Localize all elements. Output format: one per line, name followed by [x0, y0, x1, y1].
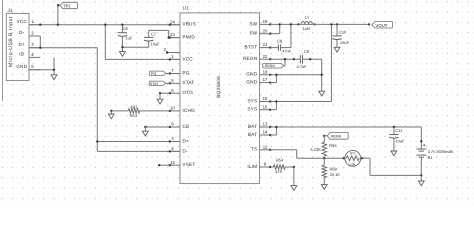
svg-text:BAT: BAT — [248, 124, 257, 129]
svg-text:22: 22 — [263, 54, 268, 59]
svg-text:GND: GND — [16, 64, 27, 69]
svg-text:C10: C10 — [339, 30, 347, 35]
svg-text:10: 10 — [170, 106, 175, 111]
svg-text:B1: B1 — [428, 155, 434, 160]
svg-text:VSET: VSET — [182, 162, 195, 167]
svg-text:OTG: OTG — [182, 90, 193, 95]
svg-text:475: 475 — [275, 169, 282, 174]
svg-text:23: 23 — [170, 32, 175, 37]
svg-text:VCC: VCC — [182, 56, 193, 61]
svg-text:SYS: SYS — [247, 107, 257, 112]
svg-text:STAT: STAT — [150, 82, 159, 86]
svg-text:3.7v 2600mAh: 3.7v 2600mAh — [428, 149, 454, 154]
svg-text:1uH: 1uH — [302, 26, 309, 31]
svg-text:CE: CE — [182, 124, 189, 129]
svg-text:30.1K: 30.1K — [330, 172, 341, 177]
svg-text:10uF: 10uF — [340, 40, 350, 45]
svg-text:21: 21 — [263, 42, 268, 47]
svg-text:C9: C9 — [304, 49, 310, 54]
svg-text:L1: L1 — [305, 14, 310, 19]
svg-text:24: 24 — [170, 19, 175, 24]
svg-text:TS: TS — [251, 147, 257, 152]
svg-text:20: 20 — [263, 28, 268, 33]
svg-text:C11: C11 — [395, 128, 403, 133]
svg-text:10K: 10K — [350, 162, 357, 166]
svg-text:PG: PG — [151, 72, 157, 76]
svg-text:10uF: 10uF — [395, 139, 405, 144]
svg-text:C7: C7 — [151, 31, 157, 36]
svg-text:17: 17 — [263, 77, 268, 82]
svg-text:REGN: REGN — [265, 64, 276, 68]
svg-text:D-: D- — [19, 30, 25, 35]
svg-text:BAT: BAT — [248, 132, 257, 137]
svg-text:47nF: 47nF — [282, 49, 291, 53]
svg-text:BTST: BTST — [245, 45, 258, 50]
svg-text:SYS: SYS — [247, 98, 257, 103]
svg-text:10uF: 10uF — [151, 41, 161, 46]
svg-text:BQ25606: BQ25606 — [216, 76, 221, 98]
svg-text:12: 12 — [170, 160, 175, 165]
svg-text:REGN: REGN — [331, 135, 342, 139]
svg-text:SW: SW — [249, 21, 257, 26]
svg-text:13: 13 — [263, 122, 268, 127]
svg-text:ID: ID — [19, 52, 25, 57]
svg-text:C8: C8 — [277, 39, 283, 44]
svg-text:VOUT: VOUT — [375, 23, 387, 28]
svg-text:STAT: STAT — [182, 80, 194, 85]
svg-text:Micro-USB B Input: Micro-USB B Input — [8, 16, 14, 67]
svg-text:PG: PG — [182, 70, 189, 75]
svg-text:14: 14 — [263, 130, 268, 135]
svg-text:R53: R53 — [130, 113, 138, 118]
svg-text:ILIM: ILIM — [247, 164, 257, 169]
svg-text:VCC: VCC — [17, 19, 28, 24]
svg-text:11: 11 — [263, 144, 268, 149]
svg-text:GND: GND — [246, 72, 257, 77]
svg-text:SW: SW — [249, 31, 257, 36]
svg-text:15: 15 — [263, 96, 268, 101]
svg-text:4.7uF: 4.7uF — [297, 64, 308, 69]
svg-text:D+: D+ — [182, 138, 189, 143]
svg-text:J1: J1 — [7, 8, 12, 14]
svg-text:PMID: PMID — [182, 35, 195, 40]
svg-text:681: 681 — [131, 105, 138, 110]
svg-text:19: 19 — [263, 19, 268, 24]
svg-text:ICHG: ICHG — [182, 108, 195, 113]
svg-text:C6: C6 — [123, 26, 129, 31]
svg-text:GND: GND — [246, 80, 257, 85]
svg-text:16: 16 — [263, 104, 268, 109]
svg-text:U1: U1 — [183, 6, 189, 12]
svg-text:5.23K: 5.23K — [310, 147, 321, 152]
svg-text:REGN: REGN — [243, 56, 257, 61]
svg-text:RT1: RT1 — [350, 151, 356, 155]
svg-text:TP1: TP1 — [63, 3, 71, 8]
svg-text:R55: R55 — [329, 143, 337, 148]
svg-text:R54: R54 — [276, 157, 284, 162]
svg-text:D-: D- — [182, 148, 188, 153]
svg-text:VBUS: VBUS — [182, 22, 196, 27]
svg-text:R69: R69 — [330, 166, 338, 171]
svg-text:18: 18 — [263, 69, 268, 74]
svg-text:1uF: 1uF — [125, 36, 132, 41]
svg-text:D+: D+ — [19, 42, 26, 47]
